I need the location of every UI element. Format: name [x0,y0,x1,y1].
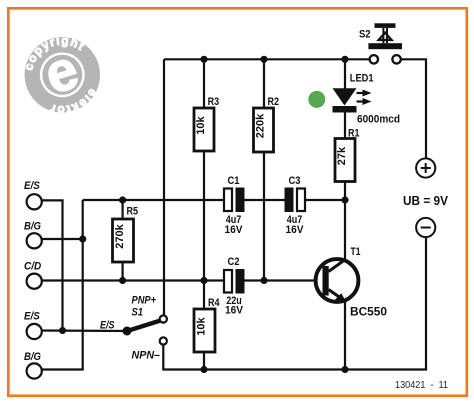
wire E/S lower terminal to switch pivot [42,329,127,332]
copyright elektor watermark [12,22,113,128]
node R5 bottom [119,277,126,284]
svg-text:R3: R3 [208,96,220,108]
LED LED1 [333,72,401,125]
battery - terminal [416,218,435,237]
svg-text:B/G: B/G [24,351,41,363]
node E/S tie [59,327,66,334]
green indicator dot [308,91,325,108]
node B/G tie [79,235,86,242]
svg-text:270k: 270k [114,223,126,248]
terminal C/D [24,260,42,289]
node emitter bottom rail [341,366,348,373]
svg-text:S2: S2 [359,29,371,41]
svg-text:130421 - 11: 130421 - 11 [395,379,448,391]
svg-text:R1: R1 [348,128,360,140]
transistor T1 [316,246,388,319]
svg-text:C2: C2 [228,256,240,268]
svg-text:LED1: LED1 [350,72,374,84]
wire C/D row left of C2 [42,279,224,281]
svg-text:220k: 220k [255,113,267,138]
svg-text:R2: R2 [268,96,280,108]
svg-text:10k: 10k [195,115,207,134]
pushbutton S2 [359,23,402,63]
svg-text:T1: T1 [351,246,361,258]
svg-text:27k: 27k [336,146,348,165]
svg-text:NPN–: NPN– [132,350,161,362]
wire R2 bottom lead down to base row [263,152,265,281]
node R5 top [119,196,126,203]
wire R3 top lead [203,59,205,108]
wire R2 top lead [263,59,265,108]
wire left vertical from top rail to S1 PNP contact [163,59,165,315]
resistor R5 [113,206,139,263]
resistor R4 [194,297,220,352]
svg-text:R5: R5 [127,206,139,218]
wire top rail [164,58,370,60]
capacitor C2 [224,256,245,317]
wire R1 to collector [344,181,346,260]
svg-text:S1: S1 [132,307,144,319]
terminal B/G lower [24,351,42,379]
node R3/R4/C2 [200,277,207,284]
node top rail R2 [260,56,267,63]
node R2 bottom / C2 right [260,277,267,284]
capacitor C3 [285,175,306,236]
capacitor C1 [224,175,245,236]
wire R4 bottom lead [203,352,205,370]
terminal B/G upper [24,221,42,249]
svg-text:BC550: BC550 [350,305,387,319]
svg-text:16V: 16V [225,224,244,236]
wire R5 top lead [121,200,123,219]
wire node row C1/C3 left part [83,199,224,201]
svg-text:C1: C1 [228,175,241,187]
wire between C1 and C3 [244,199,285,201]
switch S1 [100,295,167,362]
node top rail LED [341,56,348,63]
wire B/G top terminal lead [42,238,83,240]
wire C2 to transistor base [244,279,323,281]
svg-text:C3: C3 [289,175,301,187]
node C3/R1 junction [341,196,348,203]
wire C3 to R1 junction [305,199,345,201]
wire top rail right segment to + [401,59,426,158]
wire B/G tie vertical with bottom B/G lead [42,200,83,370]
resistor R2 [254,96,280,152]
svg-text:UB = 9V: UB = 9V [403,194,449,208]
wire R5 bottom lead [121,262,123,281]
svg-text:16V: 16V [225,305,244,317]
wire E/S top terminal to down corner [42,200,63,330]
terminal E/S lower [24,311,42,340]
wire LED cathode to R1 [344,113,346,139]
svg-text:C/D: C/D [24,260,41,272]
wire NPN contact to bottom rail and to - terminal [163,237,426,369]
terminal E/S top [24,180,42,209]
wire emitter down to bottom rail [344,301,346,370]
node R4 bottom rail [200,366,207,373]
svg-text:6000mcd: 6000mcd [357,114,400,126]
resistor R1 [335,128,360,182]
wire R3 bottom lead down to C2 row [203,151,205,309]
svg-text:10k: 10k [196,316,208,335]
svg-text:E/S: E/S [24,311,40,323]
svg-text:B/G: B/G [24,221,41,233]
svg-text:PNP+: PNP+ [132,295,157,307]
battery + terminal [416,158,435,177]
node top rail R3 [200,56,207,63]
svg-text:16V: 16V [286,224,305,236]
svg-text:E/S: E/S [24,180,40,192]
wire LED anode lead [344,59,346,88]
resistor R3 [194,96,219,151]
svg-text:E/S: E/S [100,320,115,332]
svg-text:R4: R4 [208,297,220,309]
